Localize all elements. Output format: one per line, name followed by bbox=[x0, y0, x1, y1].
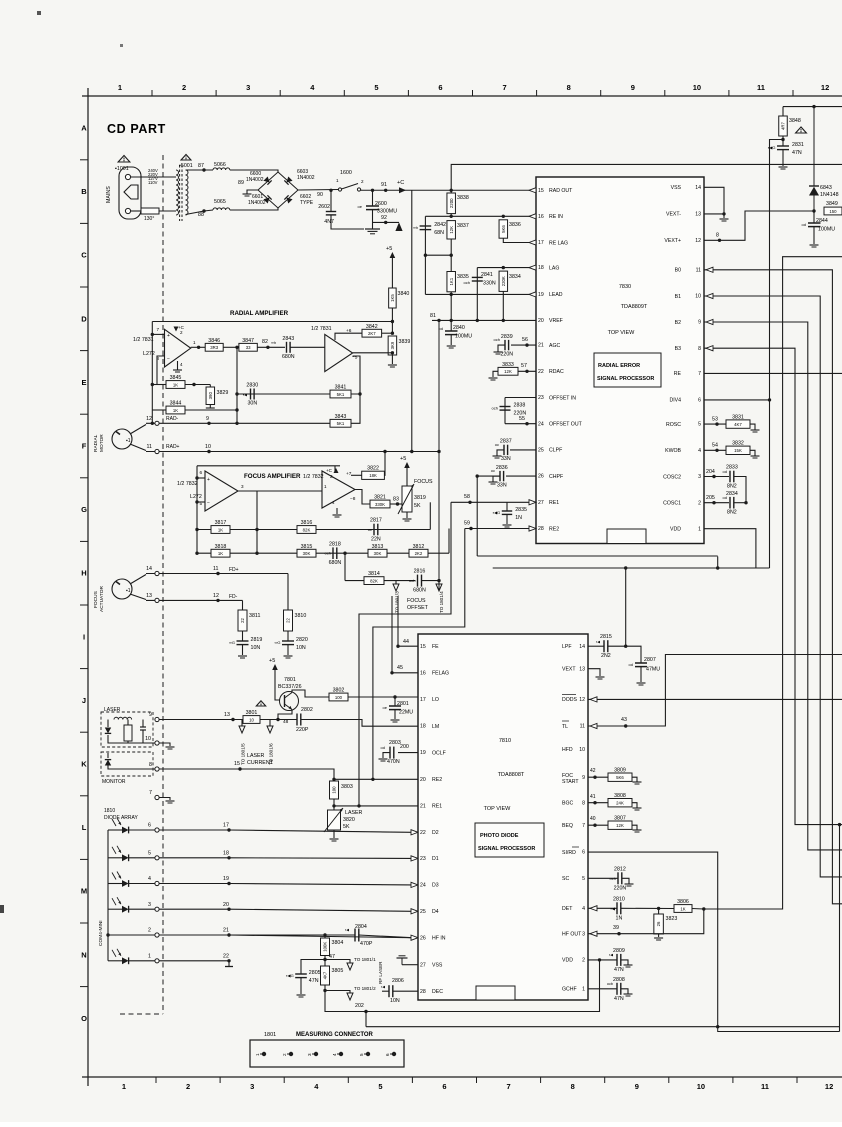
warning triangle top right bbox=[796, 127, 807, 133]
resistor 3836 5K6 bbox=[499, 220, 521, 238]
mc stub 2 bbox=[287, 1053, 291, 1055]
svg-text:FOCUS: FOCUS bbox=[93, 591, 99, 608]
junction node 82 bbox=[266, 346, 269, 349]
wire 2808 gnd L bbox=[621, 989, 628, 994]
svg-text:18K: 18K bbox=[369, 473, 377, 478]
svg-text:RE LAG: RE LAG bbox=[549, 240, 568, 246]
svg-text:1K: 1K bbox=[218, 551, 223, 556]
svg-text:2843: 2843 bbox=[282, 336, 294, 342]
ground below 2600 bbox=[365, 229, 380, 234]
wire bottom long rail bbox=[366, 1026, 840, 1028]
wire 2816 to 81 drop bbox=[422, 580, 440, 582]
svg-text:9: 9 bbox=[582, 775, 585, 781]
pin arrow B3 bbox=[706, 346, 713, 351]
junction 3818 line left bbox=[195, 552, 198, 555]
svg-text:3838: 3838 bbox=[457, 195, 469, 201]
wire array row 4 anode bbox=[108, 883, 122, 885]
svg-text:22: 22 bbox=[420, 830, 426, 836]
resistor 3814 82K bbox=[364, 571, 384, 584]
capacitor 2818 680N bbox=[325, 541, 342, 566]
wire B1 pin10 bus bbox=[704, 296, 842, 877]
svg-text:L: L bbox=[82, 823, 87, 832]
resistor 3843 5K1 bbox=[330, 414, 351, 427]
capacitor 2801 22MU electrolytic bbox=[383, 701, 414, 716]
svg-text:2830: 2830 bbox=[246, 383, 258, 389]
resistor 3822 18K bbox=[362, 466, 385, 480]
svg-text:RE IN: RE IN bbox=[549, 214, 563, 220]
svg-text:RAD OUT: RAD OUT bbox=[549, 188, 573, 194]
svg-text:3: 3 bbox=[307, 1053, 312, 1056]
svg-text:12: 12 bbox=[695, 238, 701, 244]
svg-text:▪5001: ▪5001 bbox=[179, 163, 193, 169]
wire KWOB pin4 line bbox=[704, 449, 726, 451]
svg-text:CLPF: CLPF bbox=[549, 448, 562, 454]
junction 3843 riser at 3841 bbox=[358, 392, 361, 395]
wire bridge left to ground 89 bbox=[247, 190, 258, 194]
svg-text:1/2 7832: 1/2 7832 bbox=[303, 474, 324, 480]
svg-text:▪◀G: ▪◀G bbox=[493, 510, 501, 515]
junction 43 bbox=[624, 724, 627, 727]
bottom border column numbers 1-12 bbox=[122, 1082, 833, 1091]
bridge diode 6602 bbox=[284, 195, 292, 203]
svg-text:F: F bbox=[82, 442, 87, 451]
overline DODS bbox=[562, 694, 576, 696]
junction pin18 at 3834 bbox=[502, 266, 505, 269]
wire 3848 top riser bbox=[782, 107, 784, 116]
wire 3838 riser and long top line bbox=[451, 164, 842, 193]
wire +5 to transistor bbox=[275, 670, 280, 700]
svg-text:TOP VIEW: TOP VIEW bbox=[484, 806, 512, 812]
junction 40 bbox=[593, 824, 596, 827]
wire 2837 left ground L bbox=[497, 450, 504, 456]
svg-text:12K: 12K bbox=[449, 226, 454, 234]
resistor 3846 3R3 bbox=[205, 338, 223, 351]
junction 3814 riser bbox=[343, 552, 346, 555]
wire bus from right edge bbox=[704, 257, 842, 909]
junction bus at DET line bbox=[702, 907, 705, 910]
svg-text:10N: 10N bbox=[390, 998, 400, 1004]
wire monitor diode top bbox=[107, 753, 109, 758]
svg-text:3816: 3816 bbox=[301, 520, 313, 526]
junction node 92 bbox=[384, 221, 387, 224]
svg-text:RAD-: RAD- bbox=[166, 416, 179, 422]
resistor 3832 15K bbox=[726, 441, 750, 455]
wire RE1 riser bbox=[429, 502, 431, 529]
svg-text:5K1: 5K1 bbox=[337, 392, 345, 397]
svg-text:11: 11 bbox=[757, 83, 765, 92]
ground at 2803 bbox=[379, 759, 388, 761]
junction pin15 line at 3838 riser bbox=[450, 189, 453, 192]
svg-text:−: − bbox=[207, 500, 210, 506]
svg-text:2844: 2844 bbox=[816, 218, 828, 224]
wire RE pin7 line to edge bbox=[704, 372, 842, 374]
svg-text:CHPF: CHPF bbox=[549, 474, 563, 480]
svg-text:56: 56 bbox=[522, 337, 528, 343]
svg-text:21: 21 bbox=[223, 928, 229, 934]
connector contact 4 array bbox=[155, 881, 159, 885]
svg-text:TDA8808T: TDA8808T bbox=[498, 772, 525, 778]
svg-text:SC: SC bbox=[562, 876, 569, 882]
svg-text:FD-: FD- bbox=[229, 594, 238, 600]
svg-text:LEAD: LEAD bbox=[549, 292, 563, 298]
wire FE riser bbox=[397, 596, 399, 646]
svg-text:10: 10 bbox=[697, 1082, 705, 1091]
junction 2830 line left bbox=[235, 392, 238, 395]
svg-text:2833: 2833 bbox=[726, 465, 738, 471]
svg-text:TDA8809T: TDA8809T bbox=[621, 304, 648, 310]
svg-text:3849: 3849 bbox=[826, 201, 838, 207]
svg-text:TO 1801/3: TO 1801/3 bbox=[395, 591, 400, 613]
svg-text:3845: 3845 bbox=[170, 375, 182, 381]
junction VREF at 2841 bbox=[476, 319, 479, 322]
svg-text:+: + bbox=[167, 333, 170, 339]
connector contact 2 array bbox=[155, 933, 159, 937]
svg-text:3: 3 bbox=[698, 474, 701, 480]
svg-text:MEASURING CONNECTOR: MEASURING CONNECTOR bbox=[296, 1032, 374, 1038]
wire 2836 left ground L bbox=[493, 476, 500, 482]
svg-text:13: 13 bbox=[224, 712, 230, 718]
bridge diode 6600 bbox=[263, 176, 271, 184]
wire 3844 line bbox=[152, 409, 166, 411]
junction DIV4 at bus bbox=[768, 398, 771, 401]
svg-text:19: 19 bbox=[420, 750, 426, 756]
wire y556 riser to CHPF bbox=[476, 476, 478, 556]
junction top right node bbox=[812, 105, 815, 108]
capacitor 2842 68N bbox=[413, 222, 446, 236]
pin arrow IC1 pin 18 bbox=[529, 265, 536, 270]
wire monitor to line bbox=[108, 765, 159, 769]
svg-text:2: 2 bbox=[182, 83, 186, 92]
capacitor 2816 680N bbox=[409, 569, 426, 594]
svg-text:9: 9 bbox=[698, 320, 701, 326]
wire 3835 column to VREF bbox=[450, 294, 452, 320]
junction 56 bbox=[525, 343, 528, 346]
svg-text:1: 1 bbox=[336, 178, 339, 183]
svg-text:COM4-MINI: COM4-MINI bbox=[98, 920, 104, 946]
pin arrow IC1 pin 15 bbox=[529, 188, 536, 193]
top border column numbers 1-12 bbox=[118, 83, 829, 92]
svg-text:1N: 1N bbox=[616, 915, 623, 921]
junction RAD- at feedback column bbox=[151, 422, 154, 425]
resistor 3835 1K1 bbox=[447, 272, 469, 292]
svg-text:2: 2 bbox=[180, 330, 183, 335]
resistor 3849 150 bbox=[824, 207, 842, 215]
wire 3807 gnd L bbox=[632, 825, 637, 830]
junction top rail at 3839 node bbox=[391, 320, 394, 323]
light arrow row 6 bbox=[112, 818, 121, 826]
resistor 3817 1K bbox=[211, 520, 230, 533]
wire opamp b output bbox=[353, 352, 393, 354]
wire 2807 to ground bbox=[640, 667, 642, 682]
svg-text:27: 27 bbox=[420, 962, 426, 968]
svg-text:470N: 470N bbox=[387, 759, 400, 765]
wire 3821 to 83 bbox=[390, 503, 402, 505]
photodiode array diode row 1 bbox=[122, 957, 129, 964]
svg-text:FE: FE bbox=[432, 644, 439, 650]
wire 58 route to IC2 RE1 bbox=[359, 502, 451, 806]
wire COSC1 pin2 line bbox=[704, 502, 729, 504]
wire 3843 to riser bbox=[351, 394, 360, 423]
svg-text:CD PART: CD PART bbox=[107, 122, 166, 136]
svg-text:2: 2 bbox=[582, 958, 585, 964]
svg-text:7801: 7801 bbox=[284, 677, 296, 683]
wire IC1 pin12 VEXT+ line bbox=[704, 211, 814, 240]
wire IC1 pin23 OFFSET IN line bbox=[505, 397, 536, 399]
junction HF IN at 3804 bbox=[323, 933, 326, 936]
ground at 2808 bbox=[624, 994, 633, 996]
svg-text:2837: 2837 bbox=[500, 439, 512, 445]
svg-text:2806: 2806 bbox=[392, 978, 404, 984]
svg-text:12: 12 bbox=[213, 593, 219, 599]
svg-text:DODS: DODS bbox=[562, 697, 578, 703]
wire 3834 to VREF bbox=[502, 291, 504, 320]
resistor 3840 1K5 bbox=[389, 288, 410, 308]
svg-text:7: 7 bbox=[149, 790, 152, 796]
svg-text:91: 91 bbox=[381, 182, 387, 188]
svg-text:3801: 3801 bbox=[246, 710, 258, 716]
svg-text:3840: 3840 bbox=[398, 291, 410, 297]
svg-text:3300MU: 3300MU bbox=[377, 209, 397, 215]
op-amp 7832b L272 bbox=[322, 471, 355, 508]
junction pin19 at 3835 column bbox=[450, 293, 453, 296]
capacitor 2834 8N2 bbox=[726, 491, 738, 516]
wire 2806 left stub bbox=[382, 990, 389, 992]
capacitor 2831 47N bbox=[768, 142, 804, 156]
wire 3842 to node bbox=[382, 332, 393, 334]
resistor 3804 100K bbox=[321, 938, 344, 956]
measuring connector contact 6 bbox=[392, 1052, 396, 1056]
wire SC pin5 line bbox=[588, 877, 618, 879]
ground at 3833 bbox=[489, 378, 498, 380]
svg-text:59: 59 bbox=[464, 521, 470, 527]
wire 3845 line bbox=[152, 384, 166, 386]
svg-text:och: och bbox=[325, 551, 331, 556]
wire 2838 column bbox=[504, 398, 506, 424]
wire pot 3819 to ground bbox=[406, 512, 408, 518]
monitor photodiode bbox=[105, 760, 111, 766]
op-amp 7832a L272 bbox=[205, 471, 238, 511]
wire 3847 to cap 2843 bbox=[257, 346, 285, 348]
svg-text:3: 3 bbox=[246, 83, 250, 92]
junction y568 at 717 bbox=[716, 566, 719, 569]
junction VREF at 3835 bbox=[450, 319, 453, 322]
wire 202 to bottom rail bbox=[365, 1012, 367, 1027]
svg-text:220K: 220K bbox=[501, 276, 506, 286]
wire 2804 to pin 26 bbox=[359, 935, 412, 938]
pin arrow B1 bbox=[706, 293, 713, 298]
svg-text:23: 23 bbox=[420, 856, 426, 862]
svg-text:58: 58 bbox=[464, 494, 470, 500]
svg-text:26: 26 bbox=[420, 935, 426, 941]
connector contact 6 array bbox=[155, 828, 159, 832]
svg-text:SIGNAL PROCESSOR: SIGNAL PROCESSOR bbox=[478, 846, 535, 852]
svg-text:25: 25 bbox=[420, 909, 426, 915]
svg-text:8: 8 bbox=[571, 1082, 575, 1091]
svg-text:5K1: 5K1 bbox=[337, 421, 345, 426]
svg-text:9: 9 bbox=[635, 1082, 639, 1091]
svg-text:2804: 2804 bbox=[355, 924, 367, 930]
wire 3832 ground L bbox=[750, 450, 755, 456]
measuring connector contact 2 bbox=[289, 1052, 293, 1056]
wire +5 to pot 3819 bbox=[406, 468, 408, 486]
svg-text:+C: +C bbox=[397, 180, 404, 186]
svg-text:130°: 130° bbox=[144, 216, 154, 222]
svg-text:18: 18 bbox=[420, 724, 426, 730]
junction pin16 at 3836 bbox=[502, 215, 505, 218]
svg-text:13: 13 bbox=[695, 212, 701, 218]
junction cosc common bbox=[744, 501, 747, 504]
svg-text:5K: 5K bbox=[343, 824, 350, 830]
junction opamp a output bbox=[197, 346, 200, 349]
pin arrow IC1 pin 27 bbox=[529, 500, 536, 505]
svg-text:88: 88 bbox=[198, 212, 204, 218]
wire stub to 1801/5 bbox=[241, 720, 243, 727]
svg-text:START: START bbox=[562, 779, 579, 785]
junction 204 bbox=[712, 475, 715, 478]
svg-text:RF LASER: RF LASER bbox=[378, 961, 383, 984]
resistor 3841 5K1 bbox=[330, 385, 351, 398]
wire FE wire to pin 15 bbox=[398, 645, 418, 647]
svg-text:87: 87 bbox=[198, 163, 204, 169]
svg-text:RE2: RE2 bbox=[432, 777, 442, 783]
svg-text:3803: 3803 bbox=[341, 784, 353, 790]
junction node 81 bbox=[437, 319, 440, 322]
svg-text:82K: 82K bbox=[370, 578, 378, 583]
wire opamp a pin4 ground stub bbox=[177, 361, 179, 370]
svg-text:C: C bbox=[81, 251, 87, 260]
wire opamp c feedback column bbox=[256, 491, 258, 553]
svg-text:1K: 1K bbox=[173, 382, 178, 387]
svg-text:3821: 3821 bbox=[374, 495, 386, 501]
svg-text:680N: 680N bbox=[413, 588, 426, 594]
svg-text:2: 2 bbox=[330, 474, 333, 479]
junction wrap at B3 exit bbox=[838, 823, 841, 826]
left border tick marks bbox=[80, 160, 88, 987]
wire array row 3 to contact bbox=[129, 908, 155, 910]
svg-text:+5: +5 bbox=[269, 658, 275, 664]
wire 3833 left ground L bbox=[493, 371, 498, 377]
svg-text:15K: 15K bbox=[734, 448, 742, 453]
pin arrow DET bbox=[590, 906, 597, 911]
wire 2602 to common ground bbox=[331, 215, 364, 229]
svg-text:4: 4 bbox=[332, 500, 335, 505]
svg-text:10: 10 bbox=[249, 717, 254, 722]
svg-text:19: 19 bbox=[223, 876, 229, 882]
svg-text:2812: 2812 bbox=[614, 866, 626, 872]
svg-text:D: D bbox=[81, 314, 87, 323]
transformer core dashed lines bbox=[179, 165, 181, 221]
op-amp 7831b 1/2 L272 bbox=[325, 334, 353, 371]
svg-text:30N: 30N bbox=[247, 401, 257, 407]
svg-text:OFFSET: OFFSET bbox=[407, 605, 429, 611]
wire array row 1 anode bbox=[108, 960, 122, 962]
wire laser supply line bbox=[159, 719, 243, 721]
svg-text:10: 10 bbox=[695, 294, 701, 300]
svg-text:2831: 2831 bbox=[792, 142, 804, 148]
junction c plus bbox=[195, 476, 198, 479]
svg-text:TO 1801/5: TO 1801/5 bbox=[241, 743, 246, 765]
svg-text:3818: 3818 bbox=[215, 544, 227, 550]
svg-text:14: 14 bbox=[579, 644, 585, 650]
svg-text:4R7: 4R7 bbox=[781, 121, 786, 129]
svg-text:6: 6 bbox=[582, 850, 585, 856]
ground below 2801 bbox=[391, 720, 400, 722]
resistor 3806 1K bbox=[674, 899, 692, 912]
junction LO at 2801 bbox=[393, 695, 396, 698]
svg-text:och: och bbox=[464, 280, 470, 285]
svg-text:43: 43 bbox=[621, 717, 627, 723]
svg-text:39: 39 bbox=[613, 925, 619, 931]
svg-text:B3: B3 bbox=[675, 346, 681, 352]
resistor 3811 22 bbox=[238, 610, 260, 631]
svg-text:2835: 2835 bbox=[515, 507, 527, 513]
capacitor 2839 220N bbox=[500, 334, 513, 357]
capacitor 2802 220P bbox=[297, 714, 301, 726]
connector contact 7 bbox=[155, 795, 159, 799]
resistor 3829 390 bbox=[206, 387, 228, 405]
wire LPF pin14 line bbox=[588, 645, 604, 647]
svg-text:HFD: HFD bbox=[562, 747, 573, 753]
wire +C rail drop mid bbox=[411, 190, 413, 451]
ground at 2837 bbox=[493, 456, 502, 458]
svg-text:20: 20 bbox=[420, 777, 426, 783]
connector contact 3 array bbox=[155, 907, 159, 911]
connector contact 11 RAD+ bbox=[155, 449, 159, 453]
wire 3804 to node 47 bbox=[324, 956, 326, 967]
junction node 20 bbox=[227, 908, 230, 911]
wire opamp d gnd stub bbox=[336, 508, 338, 514]
resistor 3833 12K bbox=[498, 362, 518, 375]
wire 2843 to opamp b bbox=[290, 346, 325, 348]
fuse/resistor 130 ohm bbox=[141, 208, 159, 214]
svg-text:5: 5 bbox=[374, 83, 378, 92]
capacitor 2830 30N bbox=[246, 383, 258, 407]
svg-text:HF OUT: HF OUT bbox=[562, 932, 582, 938]
svg-text:100MU: 100MU bbox=[818, 227, 835, 233]
svg-text:3846: 3846 bbox=[208, 338, 220, 344]
wire HF OUT pin3 line bbox=[588, 909, 704, 934]
svg-text:220P: 220P bbox=[296, 727, 309, 733]
svg-text:3814: 3814 bbox=[368, 571, 380, 577]
pin entry arrow row 5 bbox=[411, 856, 418, 861]
svg-text:1K: 1K bbox=[680, 906, 685, 911]
svg-text:DEC: DEC bbox=[432, 989, 443, 995]
svg-text:1K: 1K bbox=[173, 408, 178, 413]
svg-text:1N: 1N bbox=[515, 515, 522, 521]
svg-text:−: − bbox=[167, 356, 170, 362]
wire opamp c minus stub bbox=[197, 501, 205, 503]
mc stub 5 bbox=[364, 1053, 368, 1055]
svg-text:1600: 1600 bbox=[340, 170, 352, 176]
wire FD+ line bbox=[146, 573, 288, 575]
wire B3 pin8 bus bbox=[704, 348, 842, 824]
svg-text:150: 150 bbox=[829, 209, 837, 214]
resistor 3842 2K7 bbox=[362, 324, 382, 337]
switch 1600 bbox=[338, 184, 360, 192]
svg-text:7: 7 bbox=[156, 327, 159, 332]
svg-text:SIGNAL PROCESSOR: SIGNAL PROCESSOR bbox=[597, 376, 654, 382]
wire contact 10 to ground bbox=[159, 743, 170, 746]
ground below 2820 bbox=[284, 656, 293, 658]
wire radial top rail bbox=[152, 321, 392, 323]
svg-text:K: K bbox=[81, 760, 87, 769]
wire opamp a minus feedback bbox=[157, 356, 166, 385]
measuring connector contact 5 bbox=[366, 1052, 370, 1056]
wire SI/RD pin6 line bbox=[588, 852, 718, 1027]
left border row letters A-O bbox=[81, 124, 87, 1023]
svg-text:RADIAL ERROR: RADIAL ERROR bbox=[598, 363, 640, 369]
svg-text:5K: 5K bbox=[414, 503, 421, 509]
